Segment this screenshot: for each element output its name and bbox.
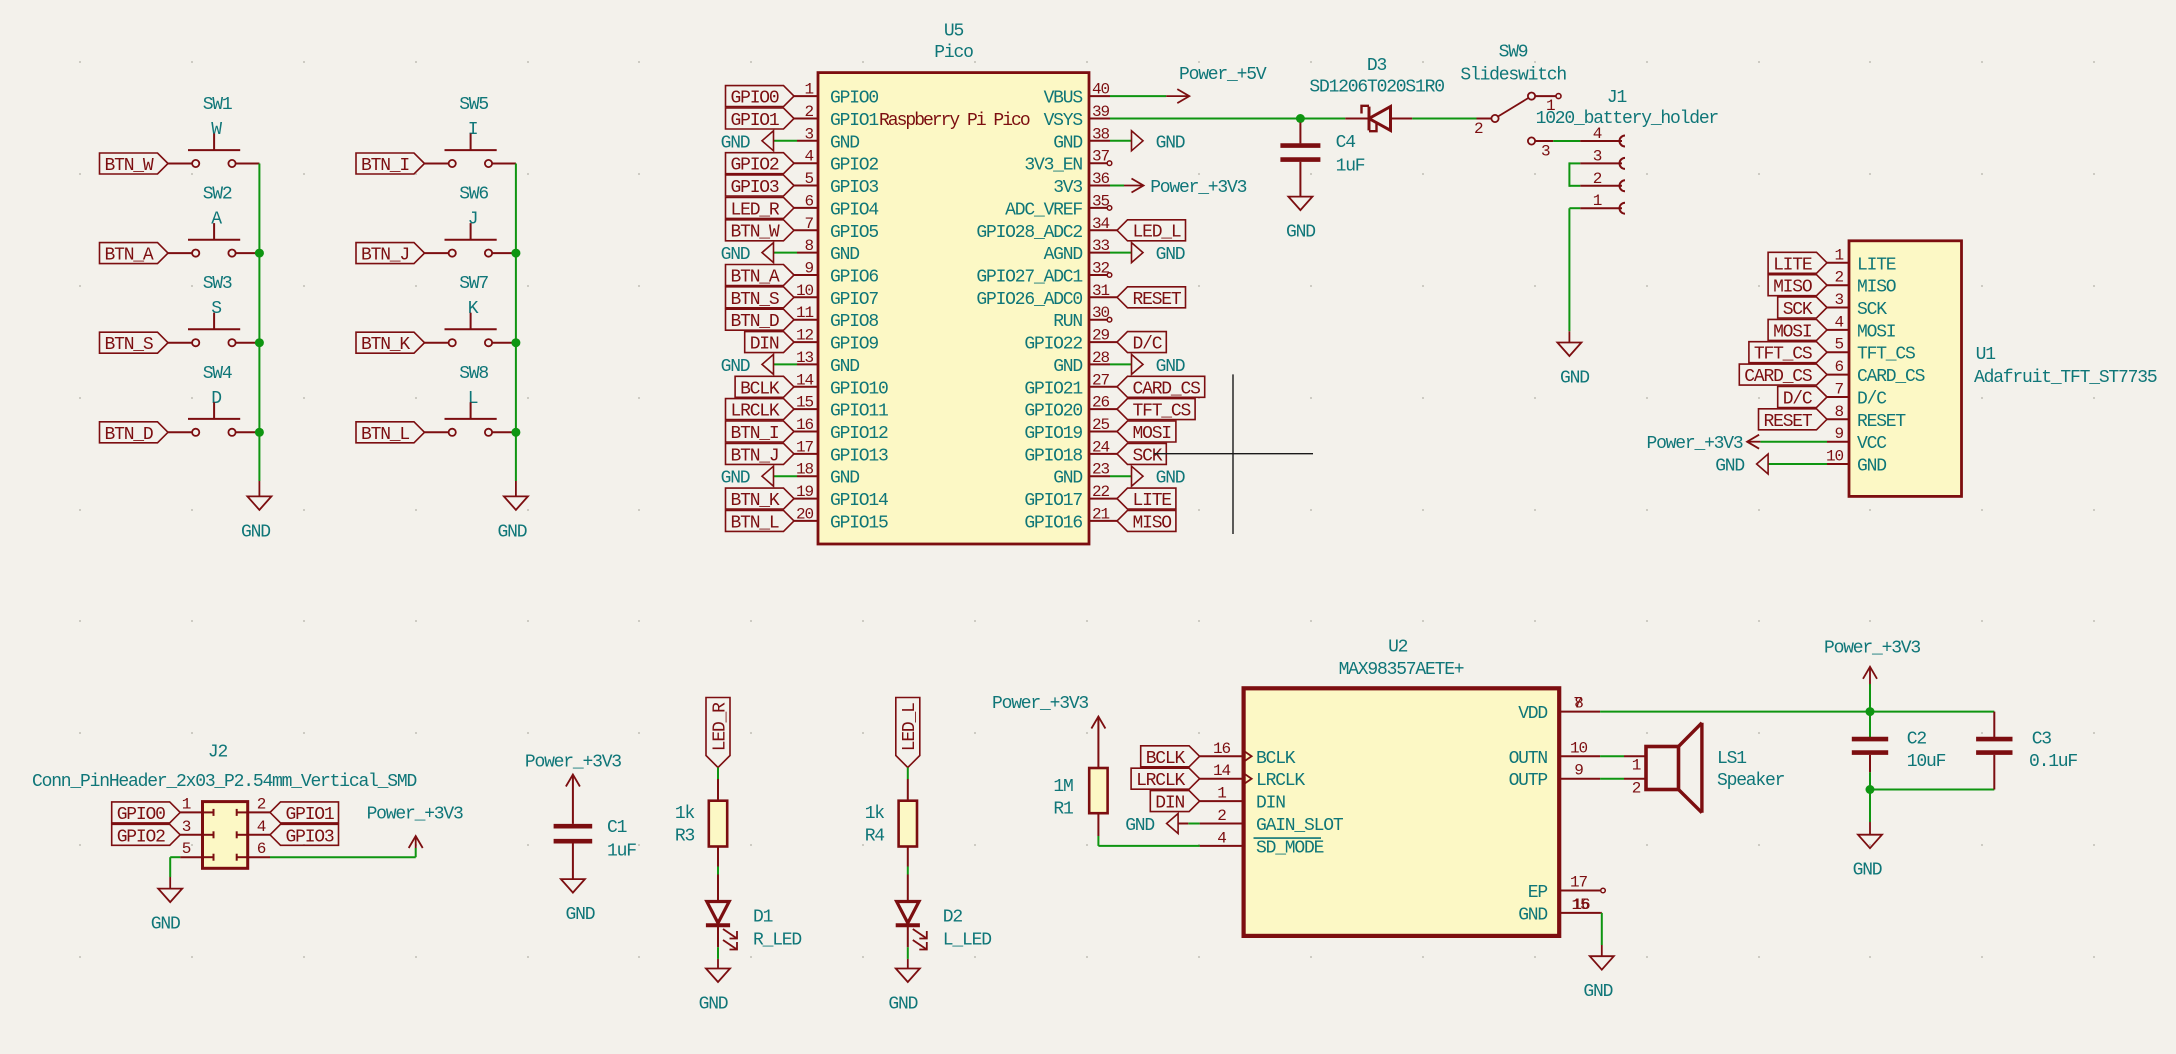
global label BTN_D <box>726 309 795 332</box>
svg-text:Adafruit_TFT_ST7735: Adafruit_TFT_ST7735 <box>1974 368 2157 388</box>
svg-text:8: 8 <box>1574 695 1583 713</box>
svg-text:GND: GND <box>1853 861 1882 881</box>
U1 pin 10 GND <box>1826 448 1886 477</box>
global label SCK <box>1117 443 1166 466</box>
svg-text:LED_L: LED_L <box>900 703 920 751</box>
global label D/C <box>1117 332 1166 355</box>
power Power_+3V3 <box>1124 178 1247 198</box>
global label GPIO2 <box>112 824 181 847</box>
svg-text:GPIO14: GPIO14 <box>830 491 888 511</box>
svg-text:SCK: SCK <box>1857 300 1887 320</box>
U5 pin 11 GPIO8 <box>794 304 878 332</box>
global label BTN_S <box>726 287 795 310</box>
global label GPIO3 <box>270 824 339 847</box>
svg-text:1: 1 <box>804 81 813 99</box>
svg-text:C1: C1 <box>607 818 627 838</box>
svg-text:0.1uF: 0.1uF <box>2029 752 2077 772</box>
LED D2 L_LED <box>896 875 992 951</box>
global label BTN_D <box>100 422 169 445</box>
svg-text:Power_+5V: Power_+5V <box>1179 65 1267 85</box>
svg-text:SW9: SW9 <box>1499 43 1528 63</box>
U1 pin 2 MISO <box>1827 269 1896 298</box>
svg-text:GPIO1: GPIO1 <box>730 111 778 131</box>
switch SW9 Slideswitch <box>1460 43 1566 161</box>
U1 pin 4 MOSI <box>1827 313 1896 342</box>
global label BTN_L <box>356 422 425 445</box>
no-connect pin 30 <box>1107 317 1112 322</box>
global label GPIO3 <box>726 175 795 198</box>
power Power_+3V3 at R1 <box>992 694 1105 768</box>
svg-text:L_LED: L_LED <box>943 931 991 951</box>
no-connect pin 35 <box>1107 206 1112 211</box>
U5 pin 16 GPIO12 <box>794 416 888 444</box>
J2 pin 3 <box>180 818 213 839</box>
U5 pin 36 3V3 <box>1053 170 1110 198</box>
J2 pin 1 <box>180 795 213 816</box>
global label BTN_L <box>726 510 795 533</box>
U5 pin 28 GND <box>1053 349 1110 377</box>
svg-text:GPIO6: GPIO6 <box>830 268 878 288</box>
svg-text:3: 3 <box>1541 143 1550 161</box>
svg-text:J2: J2 <box>208 743 228 763</box>
svg-text:4: 4 <box>1834 313 1843 331</box>
switch SW5 pushbutton I <box>445 95 497 167</box>
U5 pin 12 GPIO9 <box>794 327 878 355</box>
svg-text:LS1: LS1 <box>1717 749 1746 769</box>
svg-text:BTN_A: BTN_A <box>104 246 153 266</box>
svg-text:RUN: RUN <box>1053 312 1082 332</box>
global label RESET <box>1117 287 1186 310</box>
global label LED_R <box>726 197 795 220</box>
switch SW3 pushbutton S <box>188 274 240 346</box>
wire J2 pin5 to gnd <box>170 856 180 858</box>
U5 pin 15 GPIO11 <box>794 394 888 422</box>
svg-text:GPIO17: GPIO17 <box>1024 491 1082 511</box>
wire VBUS to +5V <box>1110 95 1166 97</box>
LED D1 R_LED <box>706 875 802 951</box>
svg-text:GND: GND <box>1053 469 1082 489</box>
power Power_+5V <box>1166 65 1267 103</box>
svg-text:GPIO3: GPIO3 <box>830 178 878 198</box>
U1 pin 9 VCC <box>1827 425 1887 454</box>
svg-text:GND: GND <box>1156 357 1185 377</box>
global label BCLK <box>1141 746 1200 769</box>
power GND at U1 <box>1757 454 1769 474</box>
U5 pin 6 GPIO4 <box>794 192 878 220</box>
U2 pin 4 SD_MODE <box>1200 829 1324 858</box>
junction <box>511 338 520 347</box>
svg-text:LITE: LITE <box>1773 255 1812 275</box>
svg-text:D1: D1 <box>753 908 773 928</box>
svg-text:GND: GND <box>241 522 270 542</box>
svg-text:SCK: SCK <box>1132 446 1162 466</box>
svg-text:9: 9 <box>1574 762 1583 780</box>
svg-text:U1: U1 <box>1976 345 1996 365</box>
svg-text:LED_R: LED_R <box>730 200 779 220</box>
svg-text:SW8: SW8 <box>459 364 488 384</box>
no-connect EP <box>1601 888 1606 893</box>
U5 pin 40 VBUS <box>1044 81 1110 109</box>
svg-text:GND: GND <box>830 469 859 489</box>
svg-text:BTN_I: BTN_I <box>730 424 778 444</box>
global label LED_L <box>896 698 920 768</box>
svg-text:C3: C3 <box>2032 730 2052 750</box>
no-connect pin 37 <box>1107 161 1112 166</box>
wire BTN_I to switch <box>425 163 449 165</box>
svg-text:38: 38 <box>1092 125 1110 143</box>
svg-text:7: 7 <box>1834 381 1843 399</box>
svg-text:26: 26 <box>1092 394 1110 412</box>
svg-text:28: 28 <box>1092 349 1110 367</box>
svg-text:BTN_J: BTN_J <box>361 246 409 266</box>
svg-text:RESET: RESET <box>1132 290 1181 310</box>
J2 pin 6 <box>237 840 270 861</box>
global label GPIO2 <box>726 153 795 176</box>
svg-text:4: 4 <box>257 818 266 836</box>
ground J2 <box>151 877 182 935</box>
power Power_+3V3 at C2 <box>1824 639 1920 712</box>
svg-text:1k: 1k <box>865 804 885 824</box>
svg-text:GPIO21: GPIO21 <box>1024 379 1082 399</box>
svg-text:LED_R: LED_R <box>710 702 730 751</box>
svg-text:GND: GND <box>497 522 526 542</box>
switch SW8 pushbutton L <box>445 364 497 436</box>
svg-text:GND: GND <box>1156 133 1185 153</box>
svg-text:R1: R1 <box>1053 800 1073 820</box>
svg-text:GPIO9: GPIO9 <box>830 335 878 355</box>
ground J1 <box>1557 331 1589 388</box>
global label TFT_CS <box>1749 342 1827 365</box>
J2 pin 5 <box>180 840 213 861</box>
svg-text:Power_+3V3: Power_+3V3 <box>1824 639 1920 659</box>
U1 pin 5 TFT_CS <box>1827 336 1915 365</box>
svg-text:29: 29 <box>1092 327 1110 345</box>
U5 pin 9 GPIO6 <box>794 260 878 288</box>
svg-text:L: L <box>468 389 478 409</box>
U2 pin VDD <box>1518 704 1600 724</box>
wire D3 to SW9 <box>1412 118 1476 120</box>
U2 pin 16 BCLK <box>1200 740 1296 769</box>
svg-text:3: 3 <box>182 818 191 836</box>
global label DIN <box>745 332 794 355</box>
op-amp U1 Adafruit_TFT_ST7735 body <box>1849 241 1962 497</box>
svg-text:21: 21 <box>1092 505 1110 523</box>
svg-text:GPIO1: GPIO1 <box>830 111 878 131</box>
svg-text:7: 7 <box>804 215 813 233</box>
svg-text:GPIO20: GPIO20 <box>1024 402 1082 422</box>
svg-text:LRCLK: LRCLK <box>1136 771 1185 791</box>
U5 pin 10 GPIO7 <box>794 282 878 310</box>
wire OUTP to speaker <box>1600 778 1624 780</box>
svg-text:GND: GND <box>565 905 594 925</box>
svg-text:16: 16 <box>796 416 814 434</box>
ground C4 <box>1288 197 1312 211</box>
wire switch to gnd bus <box>492 342 516 344</box>
global label SCK <box>1778 297 1827 320</box>
svg-text:Power_+3V3: Power_+3V3 <box>525 753 621 773</box>
svg-text:39: 39 <box>1092 103 1110 121</box>
svg-text:GPIO2: GPIO2 <box>117 827 165 847</box>
wire BTN_A to switch <box>168 252 192 254</box>
svg-text:TFT_CS: TFT_CS <box>1754 345 1812 365</box>
wire R3 to D1 <box>717 847 719 867</box>
U2 pin OUTP <box>1509 762 1601 792</box>
svg-text:GND: GND <box>1518 905 1547 925</box>
U5 pin 14 GPIO10 <box>794 371 888 399</box>
wire 3V3 to +3V3 <box>1110 185 1124 187</box>
U5 pin 8 GND <box>797 237 859 265</box>
resistor R3 1k <box>675 779 727 847</box>
U5 pin 39 VSYS <box>1044 103 1110 131</box>
svg-text:GPIO12: GPIO12 <box>830 424 888 444</box>
svg-text:1uF: 1uF <box>607 842 636 862</box>
svg-text:16: 16 <box>1213 740 1231 758</box>
U5 pin 25 GPIO19 <box>1024 416 1117 444</box>
U5 pin 34 GPIO28_ADC2 <box>976 215 1117 243</box>
svg-text:BTN_K: BTN_K <box>730 491 779 511</box>
svg-text:BTN_K: BTN_K <box>361 335 410 355</box>
power Power_+3V3 at U1 <box>1646 434 1760 454</box>
ground D1 <box>699 959 730 1015</box>
wire D1 to gnd <box>717 925 719 947</box>
svg-text:GPIO0: GPIO0 <box>730 89 778 109</box>
svg-text:SCK: SCK <box>1783 300 1813 320</box>
svg-text:BTN_D: BTN_D <box>730 312 778 332</box>
svg-text:19: 19 <box>796 483 814 501</box>
svg-text:GND: GND <box>721 133 750 153</box>
wire C2 to gnd <box>1869 790 1871 823</box>
svg-text:1: 1 <box>182 795 191 813</box>
global label BTN_S <box>100 332 169 355</box>
power GND <box>721 131 797 154</box>
diode D3 SD1206T020S1R0 schottky <box>1309 56 1444 131</box>
svg-text:24: 24 <box>1092 438 1110 456</box>
global label MISO <box>1117 510 1176 533</box>
J2 pin 4 <box>237 818 270 839</box>
junction VSYS/C4 <box>1296 114 1305 123</box>
wire switch to gnd bus <box>236 252 260 254</box>
wire GND pin10 <box>1768 463 1827 465</box>
wire switch to gnd bus <box>236 163 260 165</box>
svg-text:5: 5 <box>804 170 813 188</box>
global label BTN_I <box>726 421 795 444</box>
junction C2 gnd rail <box>1866 785 1875 794</box>
global label LED_L <box>1117 220 1186 243</box>
svg-text:Raspberry Pi Pico: Raspberry Pi Pico <box>879 111 1030 131</box>
svg-text:VDD: VDD <box>1518 704 1547 724</box>
global label BTN_K <box>726 488 795 511</box>
svg-text:Slideswitch: Slideswitch <box>1460 66 1566 86</box>
svg-text:2: 2 <box>1217 807 1226 825</box>
U5 pin 22 GPIO17 <box>1024 483 1117 511</box>
resistor R1 1M <box>1053 768 1107 820</box>
svg-text:10: 10 <box>796 282 814 300</box>
connector J2 Conn_PinHeader_2x03 body <box>203 802 248 869</box>
svg-text:MOSI: MOSI <box>1132 424 1171 444</box>
svg-text:OUTP: OUTP <box>1509 771 1548 791</box>
switch SW1 pushbutton W <box>188 95 240 167</box>
svg-text:R3: R3 <box>675 827 695 847</box>
global label BTN_W <box>726 220 795 243</box>
global label LITE <box>1768 252 1827 275</box>
switch SW2 pushbutton A <box>188 185 240 257</box>
svg-text:3: 3 <box>804 125 813 143</box>
U2 pin 14 LRCLK <box>1200 762 1306 791</box>
svg-text:CARD_CS: CARD_CS <box>1744 367 1812 387</box>
wire VDD rail <box>1600 711 1994 713</box>
svg-text:31: 31 <box>1092 282 1110 300</box>
svg-text:BTN_D: BTN_D <box>104 425 152 445</box>
wire switch to gnd bus <box>492 252 516 254</box>
svg-text:2: 2 <box>804 103 813 121</box>
svg-text:MISO: MISO <box>1773 278 1812 298</box>
svg-text:I: I <box>468 120 478 140</box>
wire LED_L to R4 <box>907 768 909 780</box>
global label LRCLK <box>1131 768 1200 791</box>
svg-text:9: 9 <box>804 260 813 278</box>
svg-text:BTN_L: BTN_L <box>361 425 409 445</box>
svg-text:GND: GND <box>1583 982 1612 1002</box>
wire VSYS net <box>1110 118 1345 120</box>
svg-text:GPIO3: GPIO3 <box>730 178 778 198</box>
U2 pin OUTN <box>1509 739 1601 769</box>
svg-text:GPIO3: GPIO3 <box>285 827 333 847</box>
switch SW4 pushbutton D <box>188 364 240 436</box>
svg-text:D3: D3 <box>1367 56 1387 76</box>
wire gnd bus vertical <box>258 164 260 482</box>
svg-text:BTN_L: BTN_L <box>730 513 778 533</box>
svg-text:GPIO22: GPIO22 <box>1024 335 1082 355</box>
U1 pin 1 LITE <box>1827 246 1896 275</box>
svg-text:2: 2 <box>1593 170 1602 188</box>
svg-text:R_LED: R_LED <box>753 931 801 951</box>
global label LRCLK <box>726 399 795 422</box>
svg-text:2: 2 <box>1474 120 1483 138</box>
svg-text:GPIO15: GPIO15 <box>830 513 888 533</box>
wire J1 pin1 to gnd <box>1569 207 1580 209</box>
U5 pin 31 GPIO26_ADC0 <box>976 282 1117 310</box>
wire BTN_D to switch <box>168 431 192 433</box>
global label GPIO1 <box>270 802 339 825</box>
svg-text:Pico: Pico <box>934 43 973 63</box>
svg-text:12: 12 <box>796 327 814 345</box>
svg-text:4: 4 <box>1217 829 1226 847</box>
svg-text:SW3: SW3 <box>203 274 232 294</box>
svg-text:MAX98357AETE+: MAX98357AETE+ <box>1339 660 1464 680</box>
svg-text:GND: GND <box>721 245 750 265</box>
junction <box>511 428 520 437</box>
wire VCC <box>1760 441 1827 443</box>
svg-text:BTN_W: BTN_W <box>104 156 153 176</box>
global label GPIO0 <box>726 86 795 109</box>
svg-text:1020_battery_holder: 1020_battery_holder <box>1536 109 1719 129</box>
svg-text:6: 6 <box>804 192 813 210</box>
svg-text:Power_+3V3: Power_+3V3 <box>1646 434 1742 454</box>
svg-text:5: 5 <box>1834 336 1843 354</box>
global label LED_R <box>706 698 730 768</box>
svg-text:10: 10 <box>1570 739 1588 757</box>
svg-text:CARD_CS: CARD_CS <box>1857 367 1925 387</box>
svg-text:3: 3 <box>1834 291 1843 309</box>
svg-text:C4: C4 <box>1336 133 1356 153</box>
svg-text:SW1: SW1 <box>203 95 232 115</box>
U1 pin 8 RESET <box>1827 403 1906 432</box>
svg-text:1: 1 <box>1834 246 1843 264</box>
svg-text:K: K <box>468 299 479 319</box>
ground <box>241 481 271 542</box>
svg-text:GND: GND <box>1125 816 1154 836</box>
switch SW6 pushbutton J <box>445 185 497 257</box>
svg-text:17: 17 <box>1570 874 1588 892</box>
U2 pin 2 GAIN_SLOT <box>1200 807 1344 836</box>
svg-text:SW4: SW4 <box>203 364 232 384</box>
U1 pin 7 D/C <box>1827 381 1887 410</box>
U2 pin EP <box>1528 874 1600 904</box>
svg-text:GND: GND <box>1053 133 1082 153</box>
svg-text:GPIO26_ADC0: GPIO26_ADC0 <box>976 290 1082 310</box>
capacitor C4 <box>1280 123 1364 197</box>
wire OUTN to speaker <box>1600 755 1624 757</box>
svg-text:20: 20 <box>796 505 814 523</box>
global label BTN_I <box>356 153 425 176</box>
svg-text:SW7: SW7 <box>459 274 488 294</box>
global label BTN_W <box>100 153 169 176</box>
svg-text:BTN_A: BTN_A <box>730 268 779 288</box>
svg-text:18: 18 <box>796 461 814 479</box>
svg-text:GND: GND <box>1156 245 1185 265</box>
svg-text:34: 34 <box>1092 215 1110 233</box>
U5 pin 18 GND <box>796 461 859 489</box>
wire SW9 to J1 pin4 <box>1553 140 1580 142</box>
resistor R4 1k <box>865 779 917 847</box>
svg-text:25: 25 <box>1092 416 1110 434</box>
wire GAIN_SLOT to gnd <box>1188 823 1199 825</box>
svg-text:33: 33 <box>1092 237 1110 255</box>
svg-text:8: 8 <box>804 237 813 255</box>
capacitor C3 0.1uF <box>1976 712 2077 790</box>
ground D2 <box>888 959 919 1015</box>
svg-text:LED_L: LED_L <box>1132 223 1180 243</box>
svg-text:MISO: MISO <box>1132 513 1171 533</box>
svg-text:SD_MODE: SD_MODE <box>1256 838 1324 858</box>
svg-text:MISO: MISO <box>1857 278 1896 298</box>
svg-text:GPIO4: GPIO4 <box>830 200 878 220</box>
svg-text:DIN: DIN <box>1256 794 1285 814</box>
svg-text:16: 16 <box>1572 896 1590 914</box>
no-connect pin 32 <box>1107 273 1112 278</box>
svg-text:Speaker: Speaker <box>1717 771 1785 791</box>
wire J2 pin6 to +3V3 <box>270 856 416 858</box>
svg-text:VSYS: VSYS <box>1044 111 1083 131</box>
svg-text:AGND: AGND <box>1044 245 1083 265</box>
svg-text:GND: GND <box>888 995 917 1015</box>
global label D/C <box>1778 387 1827 410</box>
svg-text:GND: GND <box>1715 457 1744 477</box>
U5 pin 24 GPIO18 <box>1024 438 1117 466</box>
svg-text:10uF: 10uF <box>1907 752 1946 772</box>
svg-text:14: 14 <box>796 371 814 389</box>
svg-text:Conn_PinHeader_2x03_P2.54mm_Ve: Conn_PinHeader_2x03_P2.54mm_Vertical_SMD <box>32 772 416 792</box>
svg-text:17: 17 <box>796 438 814 456</box>
svg-text:TFT_CS: TFT_CS <box>1132 402 1190 422</box>
svg-text:11: 11 <box>796 304 814 322</box>
junction <box>511 249 520 258</box>
U5 pin 20 GPIO15 <box>794 505 888 533</box>
capacitor C2 10uF <box>1852 712 1946 790</box>
U5 pin 3 GND <box>797 125 859 153</box>
svg-text:3: 3 <box>1593 147 1602 165</box>
svg-text:GPIO1: GPIO1 <box>285 805 333 825</box>
